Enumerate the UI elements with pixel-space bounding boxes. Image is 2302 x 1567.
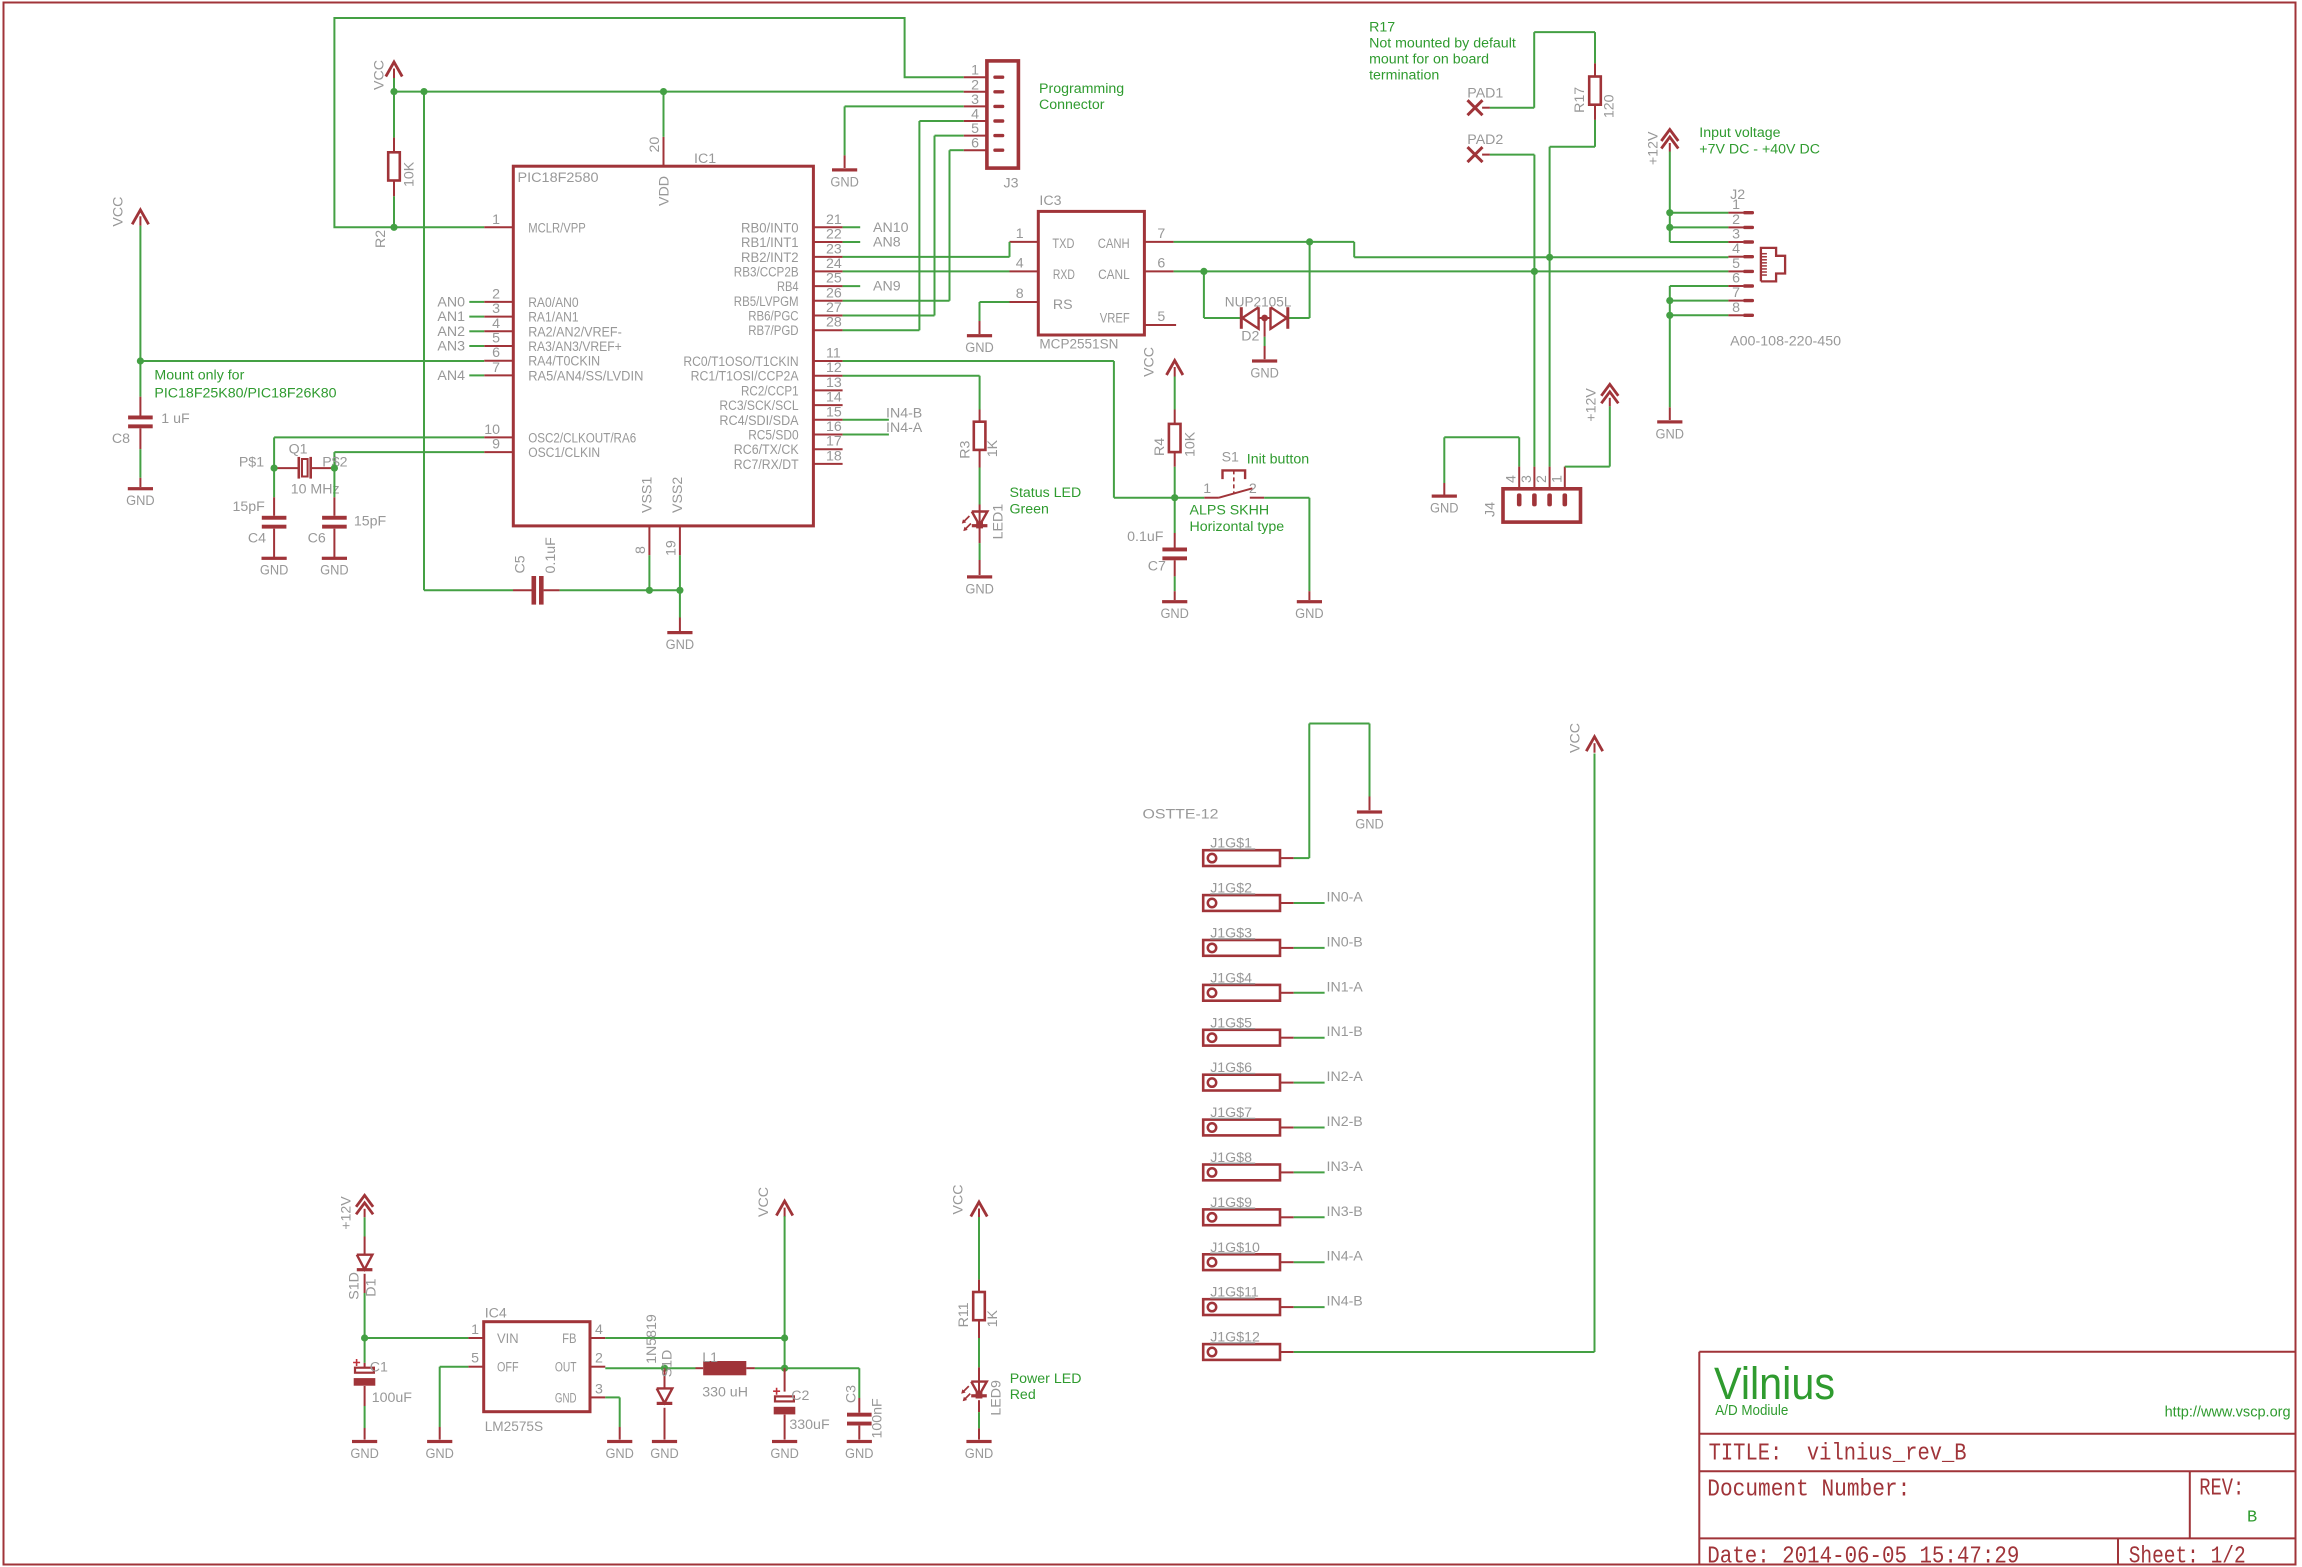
- IC1 pin 10 OSC2/CLKOUT/RA6: [484, 422, 636, 447]
- resistor R2 10K: [373, 138, 418, 248]
- svg-text:1K: 1K: [985, 439, 1001, 457]
- LED LED1: [962, 504, 1007, 543]
- crystal Q1 10 MHz: [239, 442, 348, 498]
- svg-text:C6: C6: [308, 531, 326, 547]
- J3 pin 2: [964, 77, 1005, 93]
- net label AN2: [437, 324, 484, 340]
- IC1 pin 24 RB3/CCP2B: [734, 256, 843, 281]
- svg-text:100nF: 100nF: [870, 1398, 886, 1439]
- svg-text:9: 9: [492, 437, 500, 453]
- wire +12V to J2 pins 1-3: [1670, 152, 1729, 243]
- net label IN2-B: [1294, 1114, 1363, 1130]
- svg-text:GND: GND: [320, 563, 349, 579]
- svg-text:Horizontal type: Horizontal type: [1190, 519, 1285, 535]
- connector J1G$6: [1203, 1060, 1294, 1090]
- wire J1G$1 to GND: [1294, 724, 1370, 859]
- svg-text:OUT: OUT: [555, 1360, 577, 1376]
- IC3 pin 6 CANL: [1098, 256, 1174, 284]
- svg-text:PAD1: PAD1: [1467, 85, 1503, 101]
- svg-text:10K: 10K: [402, 161, 418, 187]
- svg-text:120: 120: [1602, 94, 1618, 118]
- svg-text:R11: R11: [956, 1302, 972, 1327]
- net label IN2-A: [1294, 1069, 1364, 1085]
- svg-text:3: 3: [595, 1381, 603, 1397]
- ground GND below C8: [128, 487, 153, 490]
- svg-text:GND: GND: [650, 1446, 679, 1462]
- wire FB net: [605, 1338, 784, 1368]
- svg-text:VSS1: VSS1: [640, 477, 656, 513]
- svg-text:VSS2: VSS2: [670, 477, 686, 513]
- wire OUT to L1: [605, 1367, 695, 1369]
- junction VSS2: [676, 587, 683, 594]
- svg-text:R3: R3: [958, 440, 974, 458]
- pad PAD1: [1467, 85, 1503, 115]
- ground GND below LED9: [966, 1440, 991, 1443]
- IC1 pin 18 RC7/RX/DT: [734, 448, 843, 473]
- IC3 pin 1 TXD: [1010, 226, 1075, 252]
- note Input voltage +7V DC - +40V DC: [1699, 125, 1820, 158]
- svg-text:D1: D1: [364, 1279, 380, 1297]
- note Status LED Green: [1010, 485, 1082, 518]
- svg-text:RA0/AN0: RA0/AN0: [528, 295, 578, 311]
- svg-text:GND: GND: [965, 581, 994, 597]
- IC1 pin 17 RC6/TX/CK: [734, 434, 843, 459]
- J3 pin 1: [964, 63, 1005, 79]
- ground GND below S1: [1297, 600, 1322, 603]
- ground GND below C4: [262, 557, 287, 560]
- junction VCC/C5 branch: [420, 88, 427, 95]
- connector J1G$3: [1203, 926, 1294, 956]
- connector J3 body: [987, 61, 1019, 168]
- wire OFF to GND: [440, 1367, 469, 1440]
- IC1 pin 6 RA4/T0CKIN: [484, 345, 600, 370]
- wire D2 to GND: [1264, 318, 1266, 359]
- IC1 pin 13 RC2/CCP1: [741, 375, 843, 400]
- svg-text:Mount only for: Mount only for: [154, 368, 244, 384]
- IC1 pin 26 RB5/LVPGM: [734, 285, 843, 310]
- IC1 pin 22 RB1/INT1: [741, 227, 843, 252]
- inductor L1 330 uH: [696, 1350, 755, 1401]
- svg-text:IN0-A: IN0-A: [1327, 890, 1364, 906]
- svg-text:termination: termination: [1369, 68, 1439, 84]
- IC3 pin 7 CANH: [1098, 226, 1174, 252]
- wire D1 to VIN junction: [365, 1293, 469, 1338]
- note ALPS SKHH Horizontal type: [1190, 503, 1285, 536]
- net label IN3-A: [1294, 1159, 1364, 1175]
- wire VCC to C5: [424, 589, 513, 591]
- IC1 pin 14 RC3/SCK/SCL: [719, 390, 842, 415]
- svg-text:ALPS SKHH: ALPS SKHH: [1190, 503, 1270, 519]
- svg-text:B: B: [2247, 1509, 2257, 1528]
- svg-text:Power LED: Power LED: [1010, 1371, 1082, 1387]
- svg-text:GND: GND: [666, 637, 695, 653]
- svg-text:FB: FB: [562, 1331, 576, 1347]
- ground GND below J2: [1657, 420, 1682, 423]
- svg-text:1 uF: 1 uF: [161, 411, 190, 427]
- svg-text:GND: GND: [1295, 606, 1324, 622]
- svg-text:+7V DC - +40V DC: +7V DC - +40V DC: [1699, 142, 1820, 158]
- capacitor C4 15pF: [232, 468, 286, 557]
- svg-text:GND: GND: [1160, 606, 1189, 622]
- junction INIT/R4/S1/C7: [1171, 494, 1178, 501]
- net label IN1-B: [1294, 1024, 1363, 1040]
- svg-text:7: 7: [1157, 226, 1165, 242]
- junction MCLR/R2: [390, 224, 397, 231]
- wire RXD to RB3: [843, 270, 1010, 272]
- svg-text:VCC: VCC: [372, 60, 388, 90]
- svg-text:VCC: VCC: [111, 197, 127, 227]
- junction VSS1: [646, 587, 653, 594]
- svg-text:C4: C4: [248, 531, 266, 547]
- capacitor C2 330uF: [773, 1368, 830, 1439]
- svg-text:1: 1: [1016, 226, 1024, 242]
- power VCC symbol above J1G$12 net: [1567, 723, 1602, 753]
- wire RC1 to R3: [843, 376, 980, 410]
- svg-text:1K: 1K: [985, 1310, 1001, 1328]
- wire IC4 GND pin to GND: [605, 1397, 619, 1439]
- IC1 pin 25 RB4: [777, 271, 843, 296]
- capacitor C3 100nF: [844, 1368, 886, 1439]
- svg-text:15: 15: [826, 404, 842, 420]
- ground GND below C3: [847, 1440, 872, 1443]
- svg-text:VIN: VIN: [497, 1331, 519, 1347]
- IC1 pin 12 RC1/T1OSI/CCP2A: [691, 360, 843, 385]
- wire R4 to S1 junction / INIT net: [843, 361, 1205, 498]
- svg-text:AN1: AN1: [437, 309, 465, 325]
- J3 pin 4: [964, 107, 1005, 123]
- wire L1 to VCC junction: [755, 1367, 859, 1369]
- IC1 pin 19 VSS2: [664, 477, 687, 556]
- power VCC symbol left: [111, 197, 149, 227]
- wire VCC to R4: [1174, 377, 1176, 410]
- svg-text:4: 4: [1732, 241, 1740, 257]
- svg-text:AN10: AN10: [873, 220, 909, 236]
- svg-text:AN3: AN3: [437, 339, 465, 355]
- svg-text:VCC: VCC: [756, 1187, 772, 1217]
- wire R3 to LED1: [979, 468, 981, 505]
- wire VCC to R11: [978, 1217, 980, 1280]
- svg-text:1: 1: [471, 1322, 479, 1338]
- svg-text:LED1: LED1: [991, 504, 1007, 540]
- wire PAD1 to R17: [1490, 32, 1595, 108]
- svg-text:GND: GND: [1355, 816, 1384, 832]
- ground GND below IC4: [607, 1440, 632, 1443]
- wire RB7 to J3 pin4: [843, 121, 964, 330]
- svg-text:VCC: VCC: [950, 1185, 966, 1215]
- J3 pin 5: [964, 121, 1005, 137]
- connector J1G$10: [1203, 1240, 1294, 1270]
- net label IN1-A: [1294, 979, 1364, 995]
- svg-text:GND: GND: [1250, 365, 1279, 381]
- svg-text:2: 2: [1534, 475, 1550, 483]
- svg-text:GND: GND: [260, 563, 289, 579]
- svg-text:GND: GND: [845, 1446, 874, 1462]
- connector J1G$2: [1203, 881, 1294, 911]
- IC1 pin 1 MCLR/VPP: [484, 212, 586, 237]
- wire LED9 to GND: [978, 1412, 980, 1440]
- svg-text:IN4-B: IN4-B: [1327, 1294, 1363, 1310]
- svg-text:C1: C1: [370, 1360, 388, 1376]
- IC3 pin 8 RS: [1010, 286, 1073, 313]
- net label IN4-A pin16: [843, 420, 923, 436]
- svg-text:13: 13: [826, 375, 842, 391]
- svg-text:2: 2: [1249, 481, 1257, 497]
- svg-text:GND: GND: [126, 493, 155, 509]
- svg-text:RA2/AN2/VREF-: RA2/AN2/VREF-: [528, 324, 622, 340]
- svg-text:RB0/INT0: RB0/INT0: [741, 220, 799, 236]
- ground GND below D2: [1252, 359, 1277, 362]
- diode D1 S1D: [347, 1237, 380, 1300]
- wire RB6 to J3 pin5: [843, 136, 964, 316]
- connector J1G$8: [1203, 1150, 1294, 1180]
- wire +12V to D1: [364, 1217, 366, 1236]
- svg-text:L1: L1: [702, 1350, 718, 1366]
- IC1 pin 28 RB7/PGD: [748, 315, 842, 340]
- svg-text:6: 6: [971, 136, 979, 152]
- net label AN8: [843, 235, 901, 251]
- IC1 pin 16 RC5/SD0: [748, 419, 842, 444]
- svg-text:0.1uF: 0.1uF: [543, 537, 559, 574]
- svg-text:RA3/AN3/VREF+: RA3/AN3/VREF+: [528, 339, 622, 355]
- IC1 pin 20 VDD: [647, 137, 673, 206]
- svg-text:IN2-A: IN2-A: [1327, 1069, 1364, 1085]
- svg-text:VCC: VCC: [1567, 723, 1583, 753]
- svg-text:IN0-B: IN0-B: [1327, 934, 1363, 950]
- svg-text:IN3-A: IN3-A: [1327, 1159, 1364, 1175]
- net label AN4: [437, 368, 484, 384]
- IC1 pin 3 RA1/AN1: [484, 301, 578, 326]
- junction GND J2 pin7: [1666, 297, 1673, 304]
- wire TXD to RB2: [843, 242, 1010, 257]
- IC1 pin 9 OSC1/CLKIN: [484, 437, 600, 462]
- IC1 pin 23 RB2/INT2: [741, 241, 843, 266]
- junction VCC/VDD: [660, 88, 667, 95]
- svg-text:24: 24: [826, 256, 842, 272]
- svg-text:VDD: VDD: [657, 176, 673, 206]
- svg-text:GND: GND: [350, 1446, 379, 1462]
- junction L1/C2: [781, 1365, 788, 1372]
- IC1 pin 5 RA3/AN3/VREF+: [484, 331, 622, 356]
- svg-text:R17: R17: [1572, 87, 1588, 113]
- svg-text:RC0/T1OSO/T1CKIN: RC0/T1OSO/T1CKIN: [683, 354, 798, 370]
- svg-text:Programming: Programming: [1039, 81, 1124, 97]
- svg-text:12: 12: [826, 360, 842, 376]
- wire CANL net: [1174, 271, 1729, 318]
- ground GND below C6: [322, 557, 347, 560]
- svg-text:27: 27: [826, 300, 842, 316]
- svg-text:4: 4: [971, 107, 979, 123]
- capacitor C8 1uF: [112, 397, 190, 487]
- IC4 pin 5 OFF: [468, 1351, 518, 1376]
- svg-text:S1D: S1D: [347, 1272, 363, 1300]
- net label AN0: [437, 295, 484, 311]
- svg-text:IC1: IC1: [694, 151, 716, 167]
- wire CANL to J4 pin3: [1533, 271, 1535, 466]
- resistor R17 120: [1572, 63, 1617, 120]
- svg-text:10K: 10K: [1183, 431, 1199, 457]
- svg-text:RA1/AN1: RA1/AN1: [528, 310, 578, 326]
- svg-text:5: 5: [1732, 256, 1740, 272]
- svg-text:21: 21: [826, 212, 842, 228]
- svg-text:22: 22: [826, 227, 842, 243]
- svg-text:18: 18: [826, 448, 842, 464]
- junction CANH/R17: [1546, 254, 1553, 261]
- svg-text:1: 1: [971, 63, 979, 79]
- svg-text:IN4-B: IN4-B: [886, 406, 922, 422]
- svg-text:100uF: 100uF: [372, 1390, 413, 1406]
- svg-text:IN4-A: IN4-A: [886, 420, 923, 436]
- pad PAD2: [1467, 132, 1503, 162]
- svg-text:RB5/LVPGM: RB5/LVPGM: [734, 294, 799, 310]
- svg-text:19: 19: [664, 540, 680, 556]
- svg-text:10: 10: [484, 422, 500, 438]
- svg-text:28: 28: [826, 315, 842, 331]
- J3 pin 3: [964, 92, 1005, 108]
- power VCC symbol above R11: [950, 1185, 987, 1218]
- svg-text:A00-108-220-450: A00-108-220-450: [1730, 333, 1841, 349]
- svg-text:11: 11: [826, 346, 841, 362]
- svg-text:C5: C5: [513, 555, 529, 573]
- capacitor C7 0.1uF: [1127, 498, 1187, 600]
- svg-text:4: 4: [595, 1322, 603, 1338]
- net label IN0-A: [1294, 890, 1364, 906]
- junction crystal P$1: [271, 465, 278, 472]
- ground GND below OFF: [427, 1440, 452, 1443]
- connector J4 body: [1503, 489, 1581, 522]
- wire RB5 to J3 pin6: [843, 150, 964, 301]
- svg-text:AN0: AN0: [437, 295, 465, 311]
- net label IN4-B pin15: [843, 406, 923, 422]
- IC1 pin 2 RA0/AN0: [484, 286, 578, 311]
- svg-text:OFF: OFF: [497, 1360, 519, 1376]
- svg-text:14: 14: [826, 390, 842, 406]
- junction FB/VCC: [781, 1334, 788, 1341]
- svg-text:R2: R2: [373, 230, 389, 248]
- svg-text:RC4/SDI/SDA: RC4/SDI/SDA: [719, 413, 799, 429]
- net label IN0-B: [1294, 934, 1363, 950]
- ground GND below C7: [1162, 600, 1187, 603]
- junction D1/C1/VIN: [361, 1334, 368, 1341]
- svg-text:2: 2: [971, 77, 979, 93]
- note Programming Connector: [1039, 81, 1124, 113]
- capacitor C5 0.1uF: [513, 537, 560, 605]
- junction VCC/RA4/C8: [137, 357, 144, 364]
- net label AN3: [437, 339, 484, 355]
- svg-text:R17: R17: [1369, 20, 1395, 36]
- connector J1G$7: [1203, 1105, 1294, 1135]
- IC1 pin 11 RC0/T1OSO/T1CKIN: [683, 346, 842, 371]
- svg-text:GND: GND: [770, 1446, 799, 1462]
- svg-text:TXD: TXD: [1052, 236, 1074, 252]
- svg-text:PIC18F25K80/PIC18F26K80: PIC18F25K80/PIC18F26K80: [154, 386, 336, 402]
- svg-text:25: 25: [826, 271, 842, 287]
- IC1 pin 7 RA5/AN4/SS/LVDIN: [484, 360, 643, 385]
- svg-text:Sheet: 1/2: Sheet: 1/2: [2129, 1544, 2246, 1567]
- wire VCC to RA4 and C8: [140, 226, 484, 397]
- svg-text:RC6/TX/CK: RC6/TX/CK: [734, 442, 799, 458]
- IC4 pin 2 OUT: [555, 1351, 605, 1376]
- connector J1G$11: [1203, 1285, 1294, 1315]
- ground GND below C1: [352, 1440, 377, 1443]
- svg-text:+12V: +12V: [1646, 131, 1662, 165]
- IC IC4 LM2575S body: [484, 1322, 590, 1412]
- svg-text:PAD2: PAD2: [1467, 132, 1503, 148]
- svg-text:GND: GND: [1656, 426, 1685, 442]
- resistor R3 1K: [958, 410, 1002, 468]
- IC1 pin 21 RB0/INT0: [741, 212, 843, 237]
- wire OSC2 to crystal: [274, 437, 484, 468]
- svg-text:10 MHz: 10 MHz: [291, 482, 340, 498]
- svg-text:IN3-B: IN3-B: [1327, 1204, 1363, 1220]
- svg-text:AN9: AN9: [873, 279, 901, 295]
- wire J3 pin3 to GND: [845, 106, 964, 168]
- svg-text:REV:: REV:: [2199, 1476, 2244, 1503]
- J4 pins 4 3 2 1: [1504, 467, 1567, 507]
- svg-text:GND: GND: [965, 1446, 994, 1462]
- connector J2 pins: [1728, 197, 1754, 317]
- svg-text:P$1: P$1: [239, 455, 264, 471]
- svg-text:6: 6: [1732, 271, 1740, 287]
- svg-text:RB4: RB4: [777, 279, 799, 295]
- svg-text:3: 3: [1732, 227, 1740, 243]
- svg-text:CANH: CANH: [1098, 236, 1130, 252]
- wire C5 to VSS: [560, 555, 680, 631]
- svg-text:8: 8: [1732, 300, 1740, 316]
- svg-text:GND: GND: [1430, 501, 1459, 517]
- wire +12V to J4 pin1: [1565, 406, 1610, 466]
- svg-text:RA5/AN4/SS/LVDIN: RA5/AN4/SS/LVDIN: [528, 368, 643, 384]
- IC4 pin 4 FB: [562, 1322, 605, 1347]
- svg-text:AN8: AN8: [873, 235, 901, 251]
- svg-text:AN2: AN2: [437, 324, 465, 340]
- svg-text:3: 3: [1519, 475, 1535, 483]
- svg-text:VREF: VREF: [1100, 311, 1130, 327]
- power VCC symbol above R4: [1142, 347, 1183, 377]
- svg-text:20: 20: [647, 137, 663, 153]
- diode 1N5819 S1D: [644, 1314, 675, 1440]
- connector J1G$1: [1203, 836, 1294, 866]
- wire PAD2 to CANL: [1490, 155, 1535, 272]
- svg-text:1N5819: 1N5819: [644, 1314, 660, 1364]
- svg-text:4: 4: [492, 316, 500, 332]
- power +12V symbol near J4: [1584, 384, 1619, 421]
- svg-text:RC3/SCK/SCL: RC3/SCK/SCL: [719, 398, 798, 414]
- svg-text:Green: Green: [1010, 502, 1049, 518]
- ground GND below LED1: [967, 575, 992, 578]
- svg-text:C8: C8: [112, 431, 130, 447]
- svg-text:1: 1: [1549, 475, 1565, 483]
- svg-text:1: 1: [1203, 481, 1211, 497]
- connector J2 RJ45 jack symbol: [1761, 248, 1785, 282]
- junction CANL/D2: [1200, 268, 1207, 275]
- power +12V input symbol: [1646, 130, 1679, 166]
- svg-text:IC3: IC3: [1039, 193, 1061, 209]
- svg-text:MCP2551SN: MCP2551SN: [1039, 337, 1118, 353]
- svg-text:5: 5: [1157, 309, 1165, 325]
- net label IN4-A: [1294, 1249, 1364, 1265]
- ground GND below RS: [967, 334, 992, 337]
- svg-text:+12V: +12V: [1584, 388, 1600, 422]
- junction crystal P$2: [331, 465, 338, 472]
- svg-text:D2: D2: [1241, 328, 1259, 344]
- wire CANH net: [1174, 242, 1729, 318]
- svg-text:LED9: LED9: [989, 1380, 1005, 1416]
- svg-text:2: 2: [1732, 212, 1740, 228]
- svg-text:S1D: S1D: [659, 1350, 675, 1378]
- net label AN10: [843, 220, 909, 236]
- note R17 not mounted: [1369, 20, 1516, 84]
- svg-text:GND: GND: [830, 174, 859, 190]
